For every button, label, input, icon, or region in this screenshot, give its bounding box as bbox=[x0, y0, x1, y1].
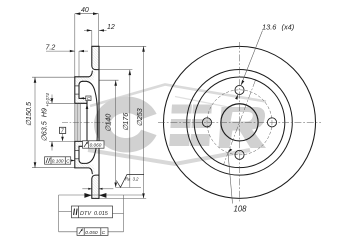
svg-text:0.050: 0.050 bbox=[85, 230, 98, 236]
svg-text:13.6: 13.6 bbox=[262, 23, 277, 32]
svg-text:12: 12 bbox=[107, 24, 115, 31]
svg-text:∅150.5: ∅150.5 bbox=[24, 101, 33, 126]
svg-text:108: 108 bbox=[234, 205, 248, 214]
svg-text:∅176: ∅176 bbox=[121, 113, 130, 131]
svg-text:0.060: 0.060 bbox=[90, 143, 102, 148]
svg-text:40: 40 bbox=[81, 7, 89, 14]
svg-text:∅140: ∅140 bbox=[104, 114, 113, 132]
svg-text:0.100: 0.100 bbox=[52, 159, 64, 164]
svg-text:7.2: 7.2 bbox=[46, 45, 56, 52]
svg-text:7: 7 bbox=[61, 129, 64, 135]
svg-text:∅63.5 H9: ∅63.5 H9 bbox=[40, 108, 49, 141]
svg-text:∅253: ∅253 bbox=[135, 108, 144, 126]
svg-text:(x4): (x4) bbox=[282, 23, 295, 32]
svg-text:Ra 3.2: Ra 3.2 bbox=[125, 176, 139, 181]
svg-text:C: C bbox=[102, 230, 106, 236]
svg-text:DTV 0.015: DTV 0.015 bbox=[80, 211, 109, 217]
